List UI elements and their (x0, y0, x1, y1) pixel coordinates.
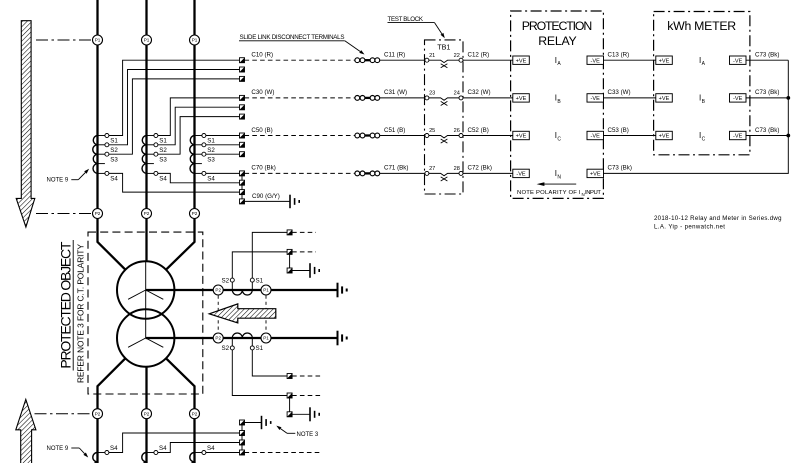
wire C11 (R) (380, 59, 425, 61)
label NOTE POLARITY OF IN INPUT (517, 190, 601, 197)
bottom CT 3 winding arcs (190, 453, 195, 463)
CT 2 tap S4 (147, 171, 168, 182)
node P2 lower CT row (213, 333, 223, 343)
bottom terminal stack link (241, 423, 243, 453)
svg-text:PROTECTED OBJECT: PROTECTED OBJECT (58, 241, 74, 368)
wire meter C73 (Bk) row 3 (746, 135, 789, 137)
TB1 link terminals 21-22 (425, 53, 463, 68)
svg-text:C13 (R): C13 (R) (608, 52, 630, 59)
node P2 upper CT row (213, 285, 223, 295)
meter element IB (699, 94, 706, 105)
CT 1 unused tap tick (98, 163, 105, 165)
svg-text:-VE: -VE (733, 58, 743, 64)
svg-text:P2: P2 (144, 211, 150, 216)
terminal lower CT S2 (287, 393, 292, 398)
wire bottom CT1 S4 (109, 433, 240, 453)
CT 2 tap S3 (147, 152, 168, 163)
svg-text:PROTECTION: PROTECTION (522, 19, 593, 33)
CT 3 tap S2 (195, 143, 216, 154)
svg-text:C73 (Bk): C73 (Bk) (608, 165, 632, 172)
svg-text:NOTE POLARITY OF I: NOTE POLARITY OF I (517, 190, 581, 196)
node P2 bus 1 (93, 209, 103, 219)
CT lower tap S1 (250, 338, 263, 352)
bus phase 1 upper section (96, 0, 98, 35)
ground bottom stack (262, 416, 271, 429)
svg-text:N: N (557, 174, 561, 180)
label PROTECTION RELAY (522, 19, 593, 48)
svg-text:S2: S2 (222, 345, 230, 352)
svg-text:28: 28 (454, 166, 460, 172)
svg-text:-VE: -VE (733, 96, 743, 102)
wire P1 to earth (upper CT row) (271, 289, 337, 291)
CT 3 winding arcs (bus 3) (190, 136, 195, 174)
TB1 link terminals 25-26 (425, 128, 463, 143)
wire transformer to P2 (upper CT row) (146, 289, 214, 291)
svg-text:C71 (Bk): C71 (Bk) (384, 165, 408, 172)
slide link disconnect terminals row 2 (355, 96, 380, 101)
wire C70 (Bk) dashed (245, 172, 356, 174)
terminal C70 group row 1 (240, 171, 245, 176)
spare dashed wire upper S2 (292, 251, 316, 253)
relay polarity arrow (537, 182, 577, 186)
svg-text:+VE: +VE (659, 58, 670, 64)
test block TB1 box (425, 40, 464, 194)
wire CT1 S1 to terminal (109, 60, 240, 135)
terminal C50 group row 3 (240, 152, 245, 157)
wire lower CT earth (292, 413, 309, 415)
wire C71 (Bk) (380, 172, 425, 174)
svg-text:C73 (Bk): C73 (Bk) (755, 89, 779, 96)
terminal C10 group row 3 (240, 76, 245, 81)
wire CT1 S3 to terminal (109, 79, 240, 154)
slide link disconnect terminals row 1 (355, 58, 380, 63)
wire CT2 S3 to terminal (158, 117, 240, 155)
wire CT2 S1 to terminal (158, 98, 240, 136)
junction dot C73 row B (786, 96, 790, 100)
spare dashed wire upper S1 (292, 231, 316, 233)
svg-text:2018-10-12 Relay and Meter in: 2018-10-12 Relay and Meter in Series.dwg (654, 215, 782, 222)
svg-text:NOTE 3: NOTE 3 (297, 432, 319, 438)
svg-text:+VE: +VE (659, 134, 670, 140)
svg-text:B: B (702, 99, 706, 105)
bottom CT 3 tap S4 (195, 445, 216, 455)
svg-text:C50 (B): C50 (B) (251, 127, 272, 134)
svg-text:-VE: -VE (591, 58, 601, 64)
wye symbol winding 2 (128, 338, 163, 347)
drawing title text (654, 215, 782, 230)
protected object dashed boundary box (88, 232, 203, 394)
svg-text:NOTE 9: NOTE 9 (47, 178, 69, 184)
svg-text:RELAY: RELAY (538, 34, 577, 48)
svg-text:C90 (G/Y): C90 (G/Y) (252, 193, 280, 200)
CT 3 tap S4 (195, 171, 216, 182)
wire bottom earth link (245, 422, 262, 424)
CT 2 unused tap tick (147, 163, 154, 165)
svg-text:C33 (W): C33 (W) (608, 89, 631, 96)
wire C32 (W) (463, 97, 514, 99)
leader to slide link (345, 41, 365, 55)
bus phase 1 into transformer (98, 219, 126, 270)
svg-text:P1: P1 (95, 38, 101, 43)
node P2 bottom bus 2 (142, 409, 152, 419)
svg-text:C73 (Bk): C73 (Bk) (755, 52, 779, 59)
wire upper CT earth (292, 270, 309, 272)
wire lower CT S2 to terminal (232, 350, 287, 396)
terminal upper CT earth (287, 268, 292, 273)
CT 1 winding arcs (bus 1) (93, 136, 98, 174)
svg-text:+VE: +VE (516, 58, 527, 64)
svg-text:kWh METER: kWh METER (667, 19, 736, 33)
svg-text:S2: S2 (159, 147, 167, 154)
wire C73 (Bk) return line (603, 60, 788, 173)
svg-text:S2: S2 (222, 277, 230, 284)
dash-dot phase reference line y=213.5 (36, 213, 93, 215)
svg-text:S2: S2 (110, 147, 118, 154)
terminal lower CT earth (287, 412, 292, 417)
svg-text:P1: P1 (263, 288, 269, 293)
node P1 bus 3 (190, 35, 200, 45)
svg-text:TEST BLOCK: TEST BLOCK (388, 16, 424, 23)
terminal C70 group row 4 (240, 199, 245, 204)
junction dot C73 row C (786, 134, 790, 138)
svg-text:S1: S1 (159, 138, 167, 145)
terminal lower CT S1 (287, 374, 292, 379)
svg-text:C53 (B): C53 (B) (608, 127, 629, 134)
svg-text:23: 23 (429, 91, 435, 97)
wire bottom CT3 S4 (206, 452, 240, 454)
bottom terminal row 4 (240, 450, 245, 455)
wye symbol winding 1 and thin neutral line (128, 261, 163, 338)
svg-text:A: A (557, 61, 561, 67)
svg-text:C72 (Bk): C72 (Bk) (468, 165, 492, 172)
svg-text:C52 (B): C52 (B) (468, 127, 489, 134)
svg-text:S4: S4 (110, 445, 118, 452)
terminal stack D vertical link (241, 173, 243, 201)
terminal C70 group row 2 (240, 180, 245, 185)
CT 1 tap S4 (98, 171, 119, 182)
terminal C50 group row 2 (240, 142, 245, 147)
underline for PROTECTED OBJECT (72, 240, 74, 371)
ground C90 (290, 195, 299, 209)
terminal C10 group row 2 (240, 67, 245, 72)
wire C33 (W) (603, 97, 656, 99)
CT 3 unused tap tick (195, 163, 202, 165)
svg-text:TB1: TB1 (437, 43, 450, 52)
svg-text:A: A (702, 61, 706, 67)
wire meter C73 (Bk) row 1 (746, 59, 789, 61)
wire C72 (Bk) (463, 172, 514, 174)
svg-text:INPUT: INPUT (585, 190, 601, 196)
CT 3 tap S3 (195, 152, 216, 163)
wire CT2 S4 to terminal (158, 173, 240, 182)
svg-text:S3: S3 (110, 156, 118, 163)
relay terminal -VE row 1 (587, 56, 604, 64)
bottom terminal row 1 (240, 420, 245, 425)
svg-text:NOTE 9: NOTE 9 (47, 446, 69, 452)
CT 1 tap S3 (98, 152, 119, 163)
svg-text:S4: S4 (207, 176, 215, 183)
terminal C50 group row 1 (240, 133, 245, 138)
wire CT3 S3 to terminal (206, 153, 240, 155)
terminal C30 group row 3 (240, 114, 245, 119)
meter terminal -VE row 1 (730, 56, 747, 64)
svg-text:27: 27 (429, 166, 435, 172)
svg-text:24: 24 (454, 91, 460, 97)
terminal C30 group row 2 (240, 105, 245, 110)
svg-text:P1: P1 (192, 38, 198, 43)
wire CT3 S2 to terminal (206, 144, 240, 146)
svg-text:-VE: -VE (591, 96, 601, 102)
dash-dot phase reference line y=40.0 (36, 39, 93, 41)
relay element IB (555, 94, 562, 105)
CT upper tap S2 (222, 277, 235, 290)
svg-text:C10 (R): C10 (R) (251, 52, 273, 59)
ground upper CT (310, 263, 319, 278)
leader NOTE 9 bottom to CT (79, 448, 88, 458)
svg-text:L.A. Yip - penwatch.net: L.A. Yip - penwatch.net (654, 223, 725, 230)
svg-text:P2: P2 (192, 211, 198, 216)
svg-text:C51 (B): C51 (B) (384, 127, 405, 134)
svg-text:S3: S3 (159, 156, 167, 163)
relay terminal +VE row 3 (513, 131, 530, 139)
ground lower CT row (338, 331, 347, 346)
spare dashed wire lower S2 (292, 395, 320, 397)
TB1 link terminals 23-24 (425, 91, 463, 106)
node P1 bus 2 (142, 35, 152, 45)
svg-text:+VE: +VE (516, 134, 527, 140)
bottom CT 1 tap S4 (98, 445, 119, 455)
svg-text:-VE: -VE (591, 134, 601, 140)
wire C31 (W) (380, 97, 425, 99)
node P1 lower CT row (261, 333, 271, 343)
leader NOTE 9 top bend segment (71, 179, 78, 181)
bus phase 3 below transformer (166, 358, 195, 463)
wire bottom CT2 S4 (158, 443, 240, 453)
svg-text:+VE: +VE (590, 172, 601, 178)
wire P1 to earth (lower CT row) (271, 337, 337, 339)
terminal upper CT S1 (287, 230, 292, 235)
CT 2 tap S2 (147, 143, 168, 154)
bottom CT 2 tap S4 (147, 445, 168, 455)
spare dashed wire lower S1 (292, 375, 320, 377)
wire CT3 S1 to terminal (206, 135, 240, 137)
CT lower tap S2 (222, 338, 235, 352)
wire C90 (G/Y) to earth (245, 200, 290, 202)
svg-text:P2: P2 (215, 336, 221, 341)
svg-text:C12 (R): C12 (R) (468, 52, 490, 59)
bus phase 2 upper section (145, 0, 147, 35)
ground upper CT row (338, 283, 347, 298)
bus phase 2 below transformer (145, 367, 147, 463)
slide link disconnect terminals row 3 (355, 133, 380, 138)
CT 3 tap S1 (195, 134, 216, 145)
wire C10 (R) dashed (245, 59, 356, 61)
node P2 bus 2 (142, 209, 152, 219)
hatched arrow top-left pointing down (16, 21, 35, 227)
wire C13 (R) (603, 59, 656, 61)
leader NOTE 9 bottom bend segment (71, 447, 79, 449)
wire C51 (B) (380, 135, 425, 137)
node P1 bus 1 (93, 35, 103, 45)
CT 2 tap S1 (147, 134, 168, 145)
svg-text:P2: P2 (144, 411, 150, 416)
svg-text:S4: S4 (110, 176, 118, 183)
meter terminal -VE row 2 (730, 94, 747, 102)
upper CT terminal link (289, 252, 291, 271)
svg-text:C30 (W): C30 (W) (251, 89, 274, 96)
CT 1 tap S2 (98, 143, 119, 154)
hatched arrow pointing left (209, 304, 275, 323)
relay terminal -VE row 2 (587, 94, 604, 102)
svg-text:P1: P1 (263, 336, 269, 341)
relay terminal +VE row 4 (587, 169, 604, 177)
leader NOTE 3 to ground (276, 426, 287, 434)
meter terminal +VE row 3 (656, 131, 673, 139)
node P2 bottom bus 3 (190, 409, 200, 419)
wire CT3 S4 to terminal (206, 172, 240, 174)
wire lower CT S1 to terminal (252, 350, 287, 376)
dashed link P2-P2 (217, 296, 219, 333)
meter terminal +VE row 2 (656, 94, 673, 102)
svg-text:P2: P2 (95, 211, 101, 216)
terminal C10 group row 1 (240, 58, 245, 63)
relay terminal +VE row 1 (513, 56, 530, 64)
svg-text:SLIDE LINK DISCONNECT TERMINAL: SLIDE LINK DISCONNECT TERMINALS (240, 34, 345, 41)
svg-text:S1: S1 (256, 277, 264, 284)
wire upper CT S2 to terminal (232, 252, 287, 278)
label SLIDE LINK DISCONNECT TERMINALS (239, 34, 345, 41)
dash-dot phase reference line y=413.7 (35, 413, 93, 415)
svg-text:C: C (702, 137, 706, 143)
slide link disconnect terminals row 4 (355, 171, 380, 176)
svg-text:S2: S2 (207, 147, 215, 154)
CT 1 tap S1 (98, 134, 119, 145)
node P1 upper CT row (261, 285, 271, 295)
bus phase 2 into transformer (145, 219, 147, 262)
svg-text:+VE: +VE (516, 96, 527, 102)
svg-text:-VE: -VE (516, 172, 526, 178)
hatched arrow bottom-left pointing up (16, 399, 36, 463)
svg-text:C32 (W): C32 (W) (468, 89, 491, 96)
CT upper tap S1 (250, 277, 263, 290)
leader to test block (435, 23, 445, 39)
svg-text:S1: S1 (110, 138, 118, 145)
node P2 bottom bus 1 (93, 409, 103, 419)
bottom CT 2 winding arcs (142, 453, 147, 463)
svg-text:-VE: -VE (733, 134, 743, 140)
wire CT2 S2 to terminal (158, 107, 240, 145)
protection relay box (511, 11, 604, 198)
wire C53 (B) (603, 135, 656, 137)
svg-text:B: B (557, 99, 561, 105)
svg-text:REFER NOTE 3 FOR C.T. POLARITY: REFER NOTE 3 FOR C.T. POLARITY (76, 244, 86, 383)
svg-text:S4: S4 (207, 445, 215, 452)
bus phase 3 upper section (193, 0, 195, 35)
terminal upper CT S2 (287, 249, 292, 254)
svg-text:P2: P2 (215, 288, 221, 293)
transformer winding 1 (circle) (117, 261, 174, 318)
wire C50 (B) dashed (245, 135, 356, 137)
TB1 link terminals 27-28 (425, 166, 463, 181)
terminal C30 group row 1 (240, 95, 245, 100)
CT lower right row winding arcs (223, 337, 261, 339)
meter element IA (699, 56, 706, 67)
svg-text:C11 (R): C11 (R) (384, 52, 405, 59)
leader NOTE 3 bend segment (287, 432, 295, 434)
kWh meter box (654, 12, 750, 155)
terminal C70 group row 3 (240, 190, 245, 195)
svg-text:S4: S4 (159, 445, 167, 452)
svg-text:C73 (Bk): C73 (Bk) (755, 127, 779, 134)
relay element IC (555, 131, 562, 142)
ground lower CT (310, 407, 319, 421)
svg-text:25: 25 (429, 128, 435, 134)
svg-text:C: C (557, 137, 561, 143)
CT upper right row winding arcs (223, 289, 261, 291)
svg-text:C70 (Bk): C70 (Bk) (251, 165, 275, 172)
wire CT1 S4 to terminal (109, 173, 240, 192)
bottom terminal row 2 (240, 431, 245, 436)
CT 2 winding arcs (bus 2) (142, 136, 147, 174)
svg-text:P2: P2 (192, 411, 198, 416)
meter terminal -VE row 3 (730, 131, 747, 139)
wire meter C73 (Bk) row 2 (746, 97, 789, 99)
svg-text:P1: P1 (144, 38, 150, 43)
node P2 bus 3 (190, 209, 200, 219)
wire upper CT S1 to terminal (252, 232, 287, 278)
svg-text:S3: S3 (207, 156, 215, 163)
meter terminal +VE row 1 (656, 56, 673, 64)
label TEST BLOCK (388, 16, 435, 23)
wire transformer to P2 (lower CT row) (146, 337, 214, 339)
svg-text:21: 21 (429, 53, 435, 59)
wire C12 (R) (463, 59, 514, 61)
svg-text:S1: S1 (207, 138, 215, 145)
wire CT1 S2 to terminal (109, 70, 240, 145)
spare dashed wire bottom (245, 452, 321, 454)
bottom CT 1 winding arcs (93, 453, 98, 463)
lower CT terminal link (289, 396, 291, 415)
bus phase 3 into transformer (166, 219, 195, 270)
wire C52 (B) (463, 135, 514, 137)
relay terminal -VE row 4 (513, 169, 530, 177)
svg-text:S1: S1 (256, 345, 264, 352)
svg-text:+VE: +VE (659, 96, 670, 102)
svg-text:S4: S4 (159, 176, 167, 183)
svg-text:C31 (W): C31 (W) (384, 89, 407, 96)
leader NOTE 9 top to CT1 (78, 169, 89, 180)
relay terminal +VE row 2 (513, 94, 530, 102)
bottom terminal row 3 (240, 440, 245, 445)
svg-text:22: 22 (454, 53, 460, 59)
dashed link P1-P1 (265, 296, 267, 333)
relay terminal -VE row 3 (587, 131, 604, 139)
relay element IN (555, 169, 562, 180)
svg-text:26: 26 (454, 128, 460, 134)
svg-text:P2: P2 (95, 411, 101, 416)
meter element IC (699, 131, 706, 142)
transformer winding 2 (circle) (117, 309, 174, 366)
bus phase 1 below transformer (98, 358, 126, 463)
relay element IA (555, 56, 562, 67)
wire C30 (W) dashed (245, 97, 356, 99)
